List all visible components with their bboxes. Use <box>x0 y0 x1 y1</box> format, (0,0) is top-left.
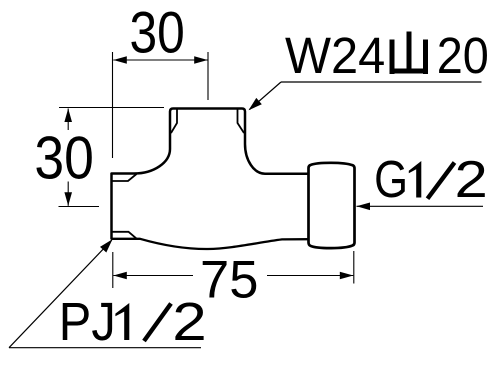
svg-text:75: 75 <box>200 251 258 310</box>
label G1/2: arrow line <box>357 205 484 207</box>
G1/2 threaded cylinder <box>309 163 355 248</box>
dim 75: dimension line <box>113 275 353 277</box>
svg-text:PJ: PJ <box>59 293 116 352</box>
neck inner chamfer left <box>171 109 177 133</box>
svg-text:W24: W24 <box>285 27 385 84</box>
dim 75: value 75 (white box breaks dim line) <box>193 262 267 298</box>
dim top-30: right arrowhead <box>194 56 208 64</box>
label G1/2: glyph 1 <box>409 161 422 198</box>
svg-text:2: 2 <box>172 292 207 352</box>
svg-text:30: 30 <box>130 1 185 66</box>
dim left-30: value 30 (white box breaks dim line) <box>34 130 94 182</box>
dim top-30: dimension line <box>113 59 207 61</box>
svg-text:30: 30 <box>34 125 94 192</box>
dim left-30: down arrowhead <box>64 192 72 206</box>
label W24yama20: leader diagonal <box>250 82 282 110</box>
fitting body underside wavy outline <box>112 239 310 249</box>
svg-text:20: 20 <box>437 27 489 84</box>
label W24yama20: underline <box>281 81 482 83</box>
label G1/2: arrowhead <box>357 203 371 211</box>
dim left-30: top extension line <box>59 107 164 109</box>
dim top-30: right extension line <box>207 52 209 100</box>
dim 75: left arrowhead <box>113 272 127 280</box>
dim top-30: left arrowhead <box>113 56 127 64</box>
label PJ1/2: underline <box>9 347 201 349</box>
dim 75: left extension line <box>112 252 114 288</box>
svg-text:G: G <box>374 151 408 209</box>
dim left-30: dimension line <box>67 109 69 206</box>
label PJ1/2: leader diagonal <box>9 240 112 348</box>
dim left-30: up arrowhead <box>64 109 72 123</box>
label PJ1/2: arrowhead <box>100 239 113 252</box>
svg-text:2: 2 <box>455 151 488 209</box>
label W24yama20: arrowhead <box>249 98 262 110</box>
fitting body outline (top run: left arm, neck, right arm) <box>112 109 310 239</box>
dim top-30: left extension line <box>112 52 114 158</box>
left arm top chamfer <box>112 174 137 181</box>
label PJ1/2: glyph 1 <box>115 303 129 340</box>
label G1/2: slash <box>428 163 455 199</box>
dim 75: right arrowhead <box>340 272 354 280</box>
dim left-30: bottom extension line <box>59 206 100 208</box>
label W24yama20: yama glyph <box>390 32 428 75</box>
dim 75: right extension line <box>353 251 355 284</box>
neck inner chamfer right <box>238 109 245 133</box>
left arm bottom chamfer <box>112 232 137 239</box>
label PJ1/2: slash <box>144 304 171 342</box>
